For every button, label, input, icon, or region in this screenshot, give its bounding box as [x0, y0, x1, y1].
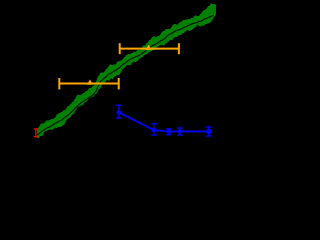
orange horizontal error bar A: [59, 78, 119, 89]
blue error bar P5: [206, 127, 212, 136]
orange triangle marker B: [146, 45, 152, 50]
red error bar marker: [34, 129, 38, 138]
green confidence band: [37, 3, 216, 138]
blue point P4: [178, 129, 182, 133]
orange triangle marker A: [87, 79, 93, 84]
blue point P2: [152, 128, 157, 133]
blue point P5: [206, 129, 211, 134]
blue error bar P1: [116, 105, 122, 118]
blue error bar P4: [177, 128, 183, 136]
orange horizontal error bar B: [120, 43, 179, 54]
black central fit line: [37, 15, 214, 135]
blue connecting line: [119, 112, 209, 131]
blue point P1: [117, 110, 122, 115]
blue error bar P2: [151, 124, 157, 136]
blue error bar P3: [166, 129, 172, 135]
blue point P3: [167, 129, 171, 133]
